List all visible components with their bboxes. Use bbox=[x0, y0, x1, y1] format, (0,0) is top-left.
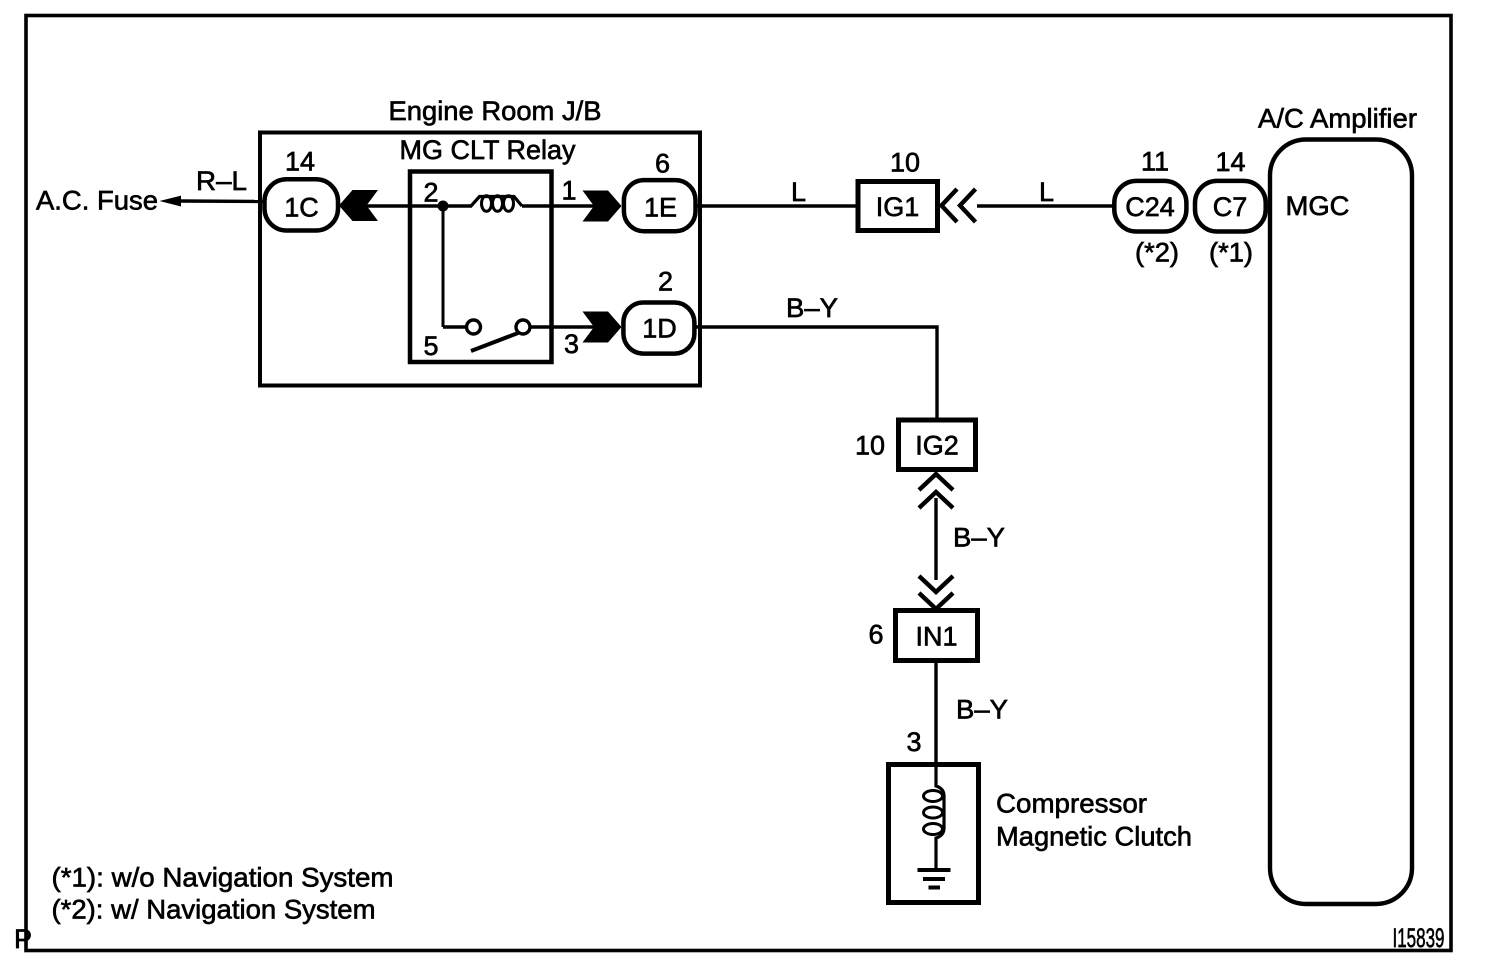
switch blade bbox=[471, 333, 518, 351]
svg-text:1: 1 bbox=[562, 176, 577, 206]
chevrons into IG1 bbox=[942, 189, 958, 222]
connector IN1 box bbox=[896, 611, 978, 661]
svg-text:1D: 1D bbox=[642, 314, 677, 344]
connector IG1 box bbox=[858, 182, 938, 231]
arrow into 1D (right-pointing solid chevron) bbox=[583, 312, 622, 343]
svg-text:MGC: MGC bbox=[1286, 191, 1350, 221]
svg-text:Magnetic Clutch: Magnetic Clutch bbox=[996, 822, 1192, 852]
connector C7 bbox=[1195, 181, 1266, 232]
wire 1E to IG1 bbox=[697, 204, 857, 207]
svg-text:B–Y: B–Y bbox=[786, 293, 838, 323]
wire to switch contact 5 bbox=[443, 325, 467, 328]
Engine Room J/B box bbox=[260, 133, 700, 386]
relay coil-to-switch vertical wire bbox=[442, 206, 445, 327]
svg-text:1E: 1E bbox=[644, 193, 677, 223]
clutch coil bbox=[924, 791, 943, 802]
svg-text:IG1: IG1 bbox=[876, 192, 920, 222]
relay coil bbox=[471, 197, 522, 207]
wire node to coil bbox=[443, 204, 472, 207]
wire IG2 to IN1 bbox=[934, 498, 937, 580]
svg-text:(*1): w/o Navigation System: (*1): w/o Navigation System bbox=[52, 863, 394, 893]
connector C24 bbox=[1114, 181, 1186, 232]
ground bbox=[918, 868, 951, 872]
svg-text:10: 10 bbox=[890, 148, 920, 178]
svg-text:IG2: IG2 bbox=[915, 431, 959, 461]
svg-text:Engine Room J/B: Engine Room J/B bbox=[389, 96, 602, 126]
svg-text:6: 6 bbox=[869, 620, 884, 650]
svg-text:(*1): (*1) bbox=[1209, 238, 1253, 268]
wire 1D to IG2 corner bbox=[695, 327, 937, 420]
wire relay left edge to node bbox=[410, 204, 443, 207]
svg-text:A.C. Fuse: A.C. Fuse bbox=[36, 186, 158, 216]
svg-text:11: 11 bbox=[1141, 147, 1169, 177]
connector IG2 box bbox=[899, 420, 976, 470]
svg-text:3: 3 bbox=[564, 329, 579, 359]
wire chevrons to C24 bbox=[977, 204, 1114, 207]
connector 1D bbox=[623, 303, 694, 354]
svg-text:L: L bbox=[1039, 177, 1054, 207]
wire arrow to relay bbox=[365, 204, 410, 207]
A/C Amplifier block bbox=[1270, 140, 1412, 905]
svg-text:R–L: R–L bbox=[196, 166, 247, 196]
arrowhead to A.C. Fuse bbox=[160, 196, 182, 207]
relay MG CLT box bbox=[410, 172, 552, 363]
svg-text:B–Y: B–Y bbox=[956, 695, 1008, 725]
svg-text:A/C Amplifier: A/C Amplifier bbox=[1258, 104, 1417, 134]
svg-text:MG CLT Relay: MG CLT Relay bbox=[400, 135, 576, 165]
svg-text:2: 2 bbox=[658, 267, 673, 297]
svg-text:I15839: I15839 bbox=[1393, 923, 1445, 953]
wire coil to relay right edge and pin 1 bbox=[522, 204, 595, 207]
chevrons up into IG2 bbox=[919, 474, 953, 490]
svg-text:3: 3 bbox=[907, 727, 922, 757]
switch contact circle 3 bbox=[516, 320, 530, 334]
svg-text:(*2): (*2) bbox=[1135, 238, 1179, 268]
switch contact circle 5 bbox=[467, 320, 481, 334]
wire A.C. Fuse to 1C bbox=[179, 199, 265, 203]
svg-text:IN1: IN1 bbox=[915, 622, 957, 652]
connector 1C bbox=[265, 179, 339, 230]
svg-text:2: 2 bbox=[424, 178, 439, 208]
svg-text:6: 6 bbox=[655, 149, 670, 179]
node dot pin 2 bbox=[438, 201, 449, 212]
compressor magnetic clutch box bbox=[889, 765, 979, 903]
wire IN1 to compressor bbox=[934, 663, 937, 764]
svg-text:C24: C24 bbox=[1125, 192, 1175, 222]
svg-text:(*2): w/ Navigation System: (*2): w/ Navigation System bbox=[52, 895, 376, 925]
svg-text:P: P bbox=[14, 924, 32, 954]
svg-text:B–Y: B–Y bbox=[953, 523, 1005, 553]
svg-text:14: 14 bbox=[1215, 147, 1245, 177]
svg-text:L: L bbox=[791, 177, 806, 207]
arrow into 1C (left-pointing solid chevron) bbox=[339, 190, 378, 221]
svg-text:10: 10 bbox=[855, 431, 885, 461]
wire contact 3 to pin 3 bbox=[530, 325, 595, 328]
svg-text:14: 14 bbox=[285, 147, 315, 177]
svg-text:C7: C7 bbox=[1213, 192, 1248, 222]
clutch coil lead in bbox=[936, 764, 944, 868]
svg-text:Compressor: Compressor bbox=[996, 789, 1147, 819]
arrow into 1E (right-pointing solid chevron) bbox=[583, 191, 622, 222]
connector 1E bbox=[624, 180, 696, 231]
svg-text:5: 5 bbox=[424, 331, 439, 361]
svg-text:1C: 1C bbox=[284, 193, 319, 223]
chevrons down into IN1 bbox=[919, 576, 953, 592]
